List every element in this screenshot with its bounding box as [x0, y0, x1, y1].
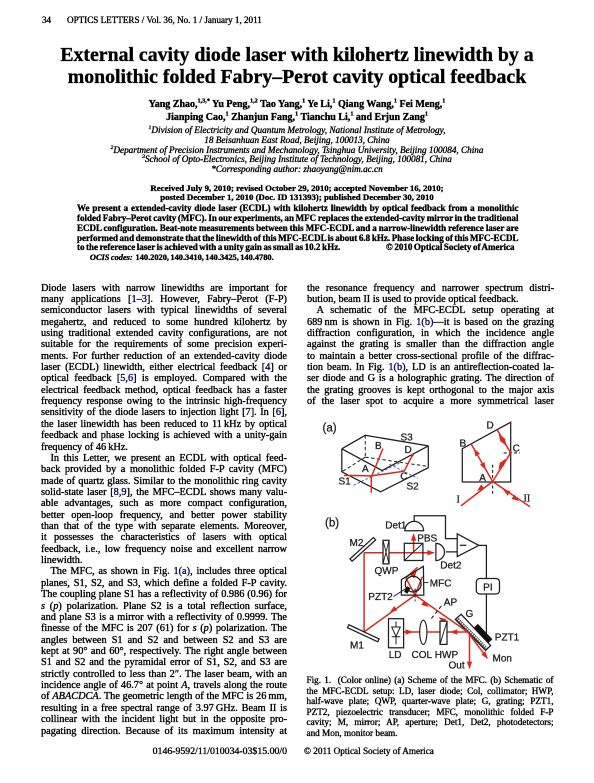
svg-text:A: A	[362, 464, 369, 475]
svg-text:QWP: QWP	[375, 566, 399, 577]
svg-text:D: D	[405, 445, 412, 456]
svg-text:(a): (a)	[323, 423, 337, 435]
svg-text:Out: Out	[449, 661, 465, 672]
svg-text:(b): (b)	[325, 518, 339, 530]
svg-text:Det2: Det2	[440, 561, 462, 572]
svg-text:PBS: PBS	[417, 534, 437, 545]
svg-text:G: G	[466, 609, 474, 620]
svg-text:MFC: MFC	[430, 578, 452, 589]
svg-text:S2: S2	[407, 481, 420, 492]
svg-text:Det1: Det1	[385, 521, 407, 532]
svg-text:M1: M1	[350, 641, 364, 652]
svg-text:PI: PI	[483, 582, 492, 593]
svg-text:HWP: HWP	[435, 650, 459, 661]
svg-text:LD: LD	[389, 650, 402, 661]
svg-text:COL: COL	[412, 650, 433, 661]
svg-text:D: D	[487, 420, 494, 431]
svg-text:II: II	[524, 493, 531, 504]
svg-text:M2: M2	[350, 538, 364, 549]
svg-text:C: C	[400, 472, 407, 483]
svg-text:I: I	[457, 494, 460, 505]
svg-text:AP: AP	[444, 597, 458, 608]
svg-text:PZT1: PZT1	[495, 632, 520, 643]
svg-text:Mon: Mon	[493, 654, 512, 665]
svg-text:PZT2: PZT2	[368, 592, 393, 603]
svg-text:B: B	[460, 438, 467, 449]
svg-text:S1: S1	[339, 477, 352, 488]
svg-text:S3: S3	[401, 433, 414, 444]
svg-text:B: B	[375, 441, 382, 452]
svg-text:C: C	[513, 444, 520, 455]
svg-text:A: A	[479, 473, 486, 484]
